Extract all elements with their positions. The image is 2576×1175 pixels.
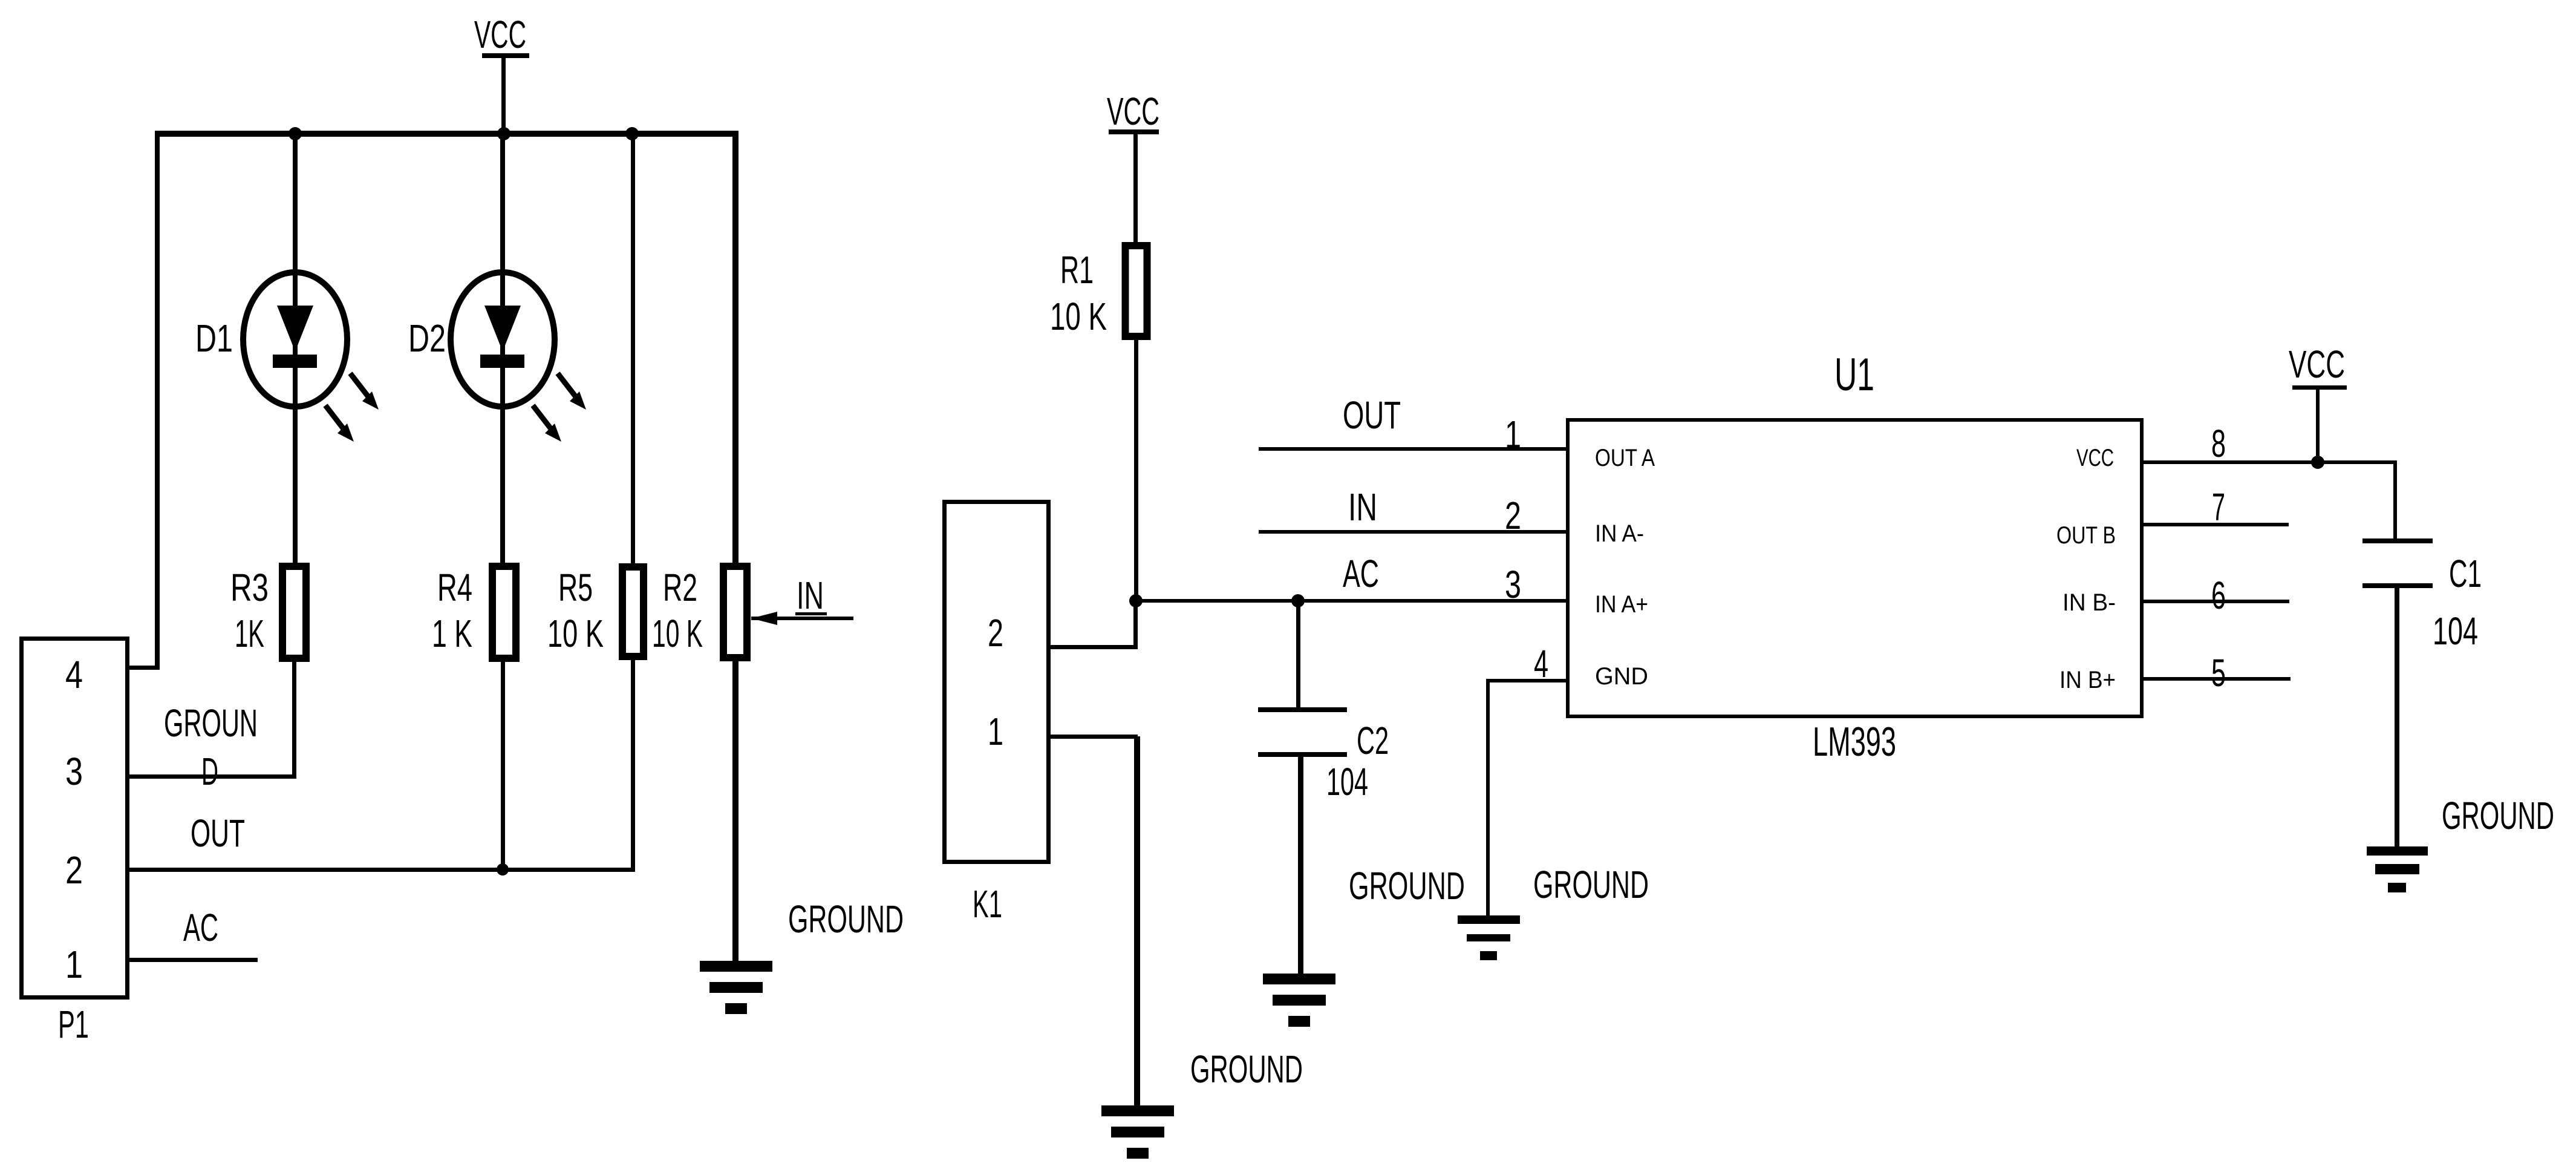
connector K1	[945, 502, 1049, 926]
svg-text:10 K: 10 K	[547, 612, 604, 655]
svg-text:GROUND: GROUND	[1349, 864, 1465, 908]
svg-text:1: 1	[65, 943, 83, 986]
wire U1 pin 8 VCC to C1	[2144, 460, 2397, 540]
svg-text:GROUND: GROUND	[2442, 794, 2554, 837]
wire K1 pin 1 to ground	[1051, 735, 1140, 1107]
svg-text:1: 1	[1505, 413, 1521, 456]
svg-text:R2: R2	[663, 566, 697, 609]
svg-text:8: 8	[2211, 422, 2226, 465]
svg-text:104: 104	[1326, 760, 1368, 804]
svg-text:OUT: OUT	[191, 811, 245, 855]
svg-text:D2: D2	[408, 316, 446, 360]
wire VCC top rail	[155, 131, 739, 137]
wire U1 pin 7 OUT B	[2144, 523, 2289, 526]
svg-text:GROUND: GROUND	[1533, 863, 1649, 906]
net label GROUND/D	[164, 701, 258, 793]
svg-text:C2: C2	[1357, 719, 1389, 762]
svg-text:K1: K1	[973, 882, 1002, 926]
svg-text:104: 104	[2433, 609, 2478, 653]
svg-text:5: 5	[2211, 651, 2226, 695]
svg-text:10 K: 10 K	[652, 612, 703, 655]
resistor R5	[547, 137, 644, 869]
svg-text:VCC: VCC	[2076, 445, 2114, 471]
power symbol VCC right	[2289, 342, 2347, 462]
LED D2	[408, 134, 586, 563]
svg-text:R3: R3	[230, 566, 269, 609]
svg-text:GROUND: GROUND	[1190, 1047, 1303, 1091]
svg-text:GROUN: GROUN	[164, 701, 258, 745]
svg-text:OUT A: OUT A	[1595, 445, 1655, 471]
svg-text:AC: AC	[1343, 552, 1379, 595]
capacitor C1	[2362, 538, 2482, 846]
svg-text:IN: IN	[797, 574, 824, 617]
wire U1 pin 5 IN B+	[2144, 677, 2291, 681]
svg-text:2: 2	[65, 848, 83, 892]
wire K1 pin 2 to AC node	[1051, 601, 1138, 649]
wire net OUT : P1 pin 2 to R4/R5	[129, 868, 635, 872]
resistor R2	[652, 134, 747, 961]
junction node AC/R1/K1	[1129, 594, 1143, 607]
LED D1	[195, 134, 379, 563]
svg-text:1 K: 1 K	[432, 612, 472, 655]
svg-text:IN B-: IN B-	[2062, 589, 2116, 616]
wire net IN to U1 pin 2	[1259, 530, 1566, 534]
junction node OUT/R4	[497, 863, 509, 876]
svg-text:VCC: VCC	[474, 13, 526, 56]
svg-text:D1: D1	[195, 316, 233, 360]
junction node rail/VCC/D2	[497, 127, 510, 140]
svg-text:R5: R5	[558, 566, 593, 609]
svg-text:IN: IN	[1348, 485, 1377, 529]
op-amp comparator U1 LM393	[1568, 349, 2142, 765]
svg-text:R4: R4	[437, 566, 472, 609]
svg-text:LM393: LM393	[1813, 719, 1896, 765]
power symbol VCC top-left	[474, 13, 529, 134]
ground R2	[700, 961, 772, 1014]
svg-text:7: 7	[2212, 485, 2225, 529]
power symbol VCC (R1)	[1107, 90, 1159, 243]
svg-text:2: 2	[988, 611, 1003, 655]
svg-text:3: 3	[65, 750, 83, 793]
svg-text:OUT B: OUT B	[2056, 522, 2116, 549]
svg-text:AC: AC	[183, 906, 218, 949]
ground C2	[1263, 974, 1335, 1027]
svg-text:10 K: 10 K	[1050, 295, 1107, 338]
junction node rail/R5	[625, 127, 639, 140]
wire net D : P1 pin 3 to R3	[129, 774, 294, 779]
capacitor C2	[1258, 603, 1389, 974]
wire net AC stub : P1 pin 1	[129, 958, 258, 962]
svg-text:D: D	[201, 750, 218, 793]
resistor R1	[1050, 246, 1147, 603]
ground C1	[2367, 846, 2428, 892]
svg-text:IN A-: IN A-	[1595, 520, 1644, 547]
junction node rail/D1	[289, 127, 302, 140]
junction node VCC/pin8	[2311, 456, 2324, 469]
wire net OUT to U1 pin 1	[1259, 447, 1566, 451]
svg-text:C1: C1	[2449, 552, 2482, 595]
svg-text:2: 2	[1505, 494, 1521, 537]
ground K1	[1101, 1105, 1174, 1159]
connector P1	[22, 639, 128, 1047]
svg-text:4: 4	[1534, 642, 1548, 686]
svg-text:IN A+: IN A+	[1595, 591, 1648, 618]
svg-text:VCC: VCC	[1107, 90, 1159, 133]
svg-text:GND: GND	[1595, 663, 1648, 690]
svg-text:GROUND: GROUND	[788, 897, 904, 941]
svg-text:U1: U1	[1834, 349, 1874, 401]
svg-text:IN B+: IN B+	[2059, 667, 2116, 693]
svg-text:3: 3	[1505, 563, 1521, 606]
svg-text:VCC: VCC	[2289, 342, 2345, 386]
svg-text:R1: R1	[1060, 248, 1094, 292]
ground U1-GND	[1458, 915, 1520, 960]
junction node AC/C2	[1291, 594, 1305, 607]
resistor R4	[432, 566, 516, 869]
svg-text:OUT: OUT	[1343, 393, 1401, 437]
svg-text:6: 6	[2211, 574, 2226, 617]
wire left rail down to P1 pin 4	[129, 131, 160, 670]
wire net AC to U1 pin 3	[1136, 599, 1566, 603]
wire U1 pin 4 GND to ground	[1486, 679, 1566, 915]
svg-text:1K: 1K	[235, 612, 264, 655]
wire U1 pin 6 IN B-	[2144, 600, 2289, 603]
svg-text:P1: P1	[58, 1003, 89, 1046]
svg-text:1: 1	[988, 710, 1003, 753]
resistor R3	[230, 566, 306, 779]
node IN wiper arrow into R2	[751, 574, 853, 625]
svg-text:4: 4	[65, 653, 83, 696]
